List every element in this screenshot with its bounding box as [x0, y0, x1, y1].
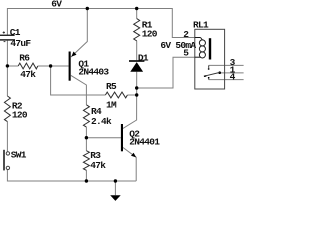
- resistor R3 47k: [83, 151, 89, 171]
- transistor Q1 emitter arrow: [71, 52, 76, 57]
- node R5 tap on base wire: [49, 64, 52, 67]
- wire SW1 to bottom rail: [7, 170, 136, 181]
- node R3 bottom rail: [85, 179, 88, 182]
- wire top 6V rail: [7, 9, 194, 38]
- svg-text:R6: R6: [19, 53, 30, 64]
- relay RL1 contact NO post pin4: [208, 77, 210, 78]
- wire relay contact pin4: [209, 79, 244, 81]
- relay RL1 core: [209, 38, 211, 59]
- svg-text:R5: R5: [106, 81, 117, 92]
- resistor R4 2.4k: [83, 105, 89, 127]
- svg-text:2.4k: 2.4k: [91, 116, 112, 127]
- capacitor C1 47uF plates: [0, 35, 15, 41]
- wire Q1 collector to R4: [71, 75, 87, 104]
- node relay pin5 branch: [135, 86, 138, 89]
- svg-text:2N4401: 2N4401: [129, 137, 160, 148]
- svg-text:1M: 1M: [106, 99, 117, 110]
- node R1 rail: [135, 7, 138, 10]
- wire R3 to ground rail: [85, 170, 87, 181]
- resistor R6 47k: [18, 63, 38, 69]
- node R4 R3 Q2 base: [85, 136, 88, 139]
- wire ground stem: [114, 181, 116, 195]
- transistor Q2 emitter arrow: [131, 153, 136, 158]
- svg-text:6V 50mA: 6V 50mA: [160, 40, 196, 51]
- capacitor C1 polarity marks: [3, 31, 6, 41]
- wire R5 feedback left: [51, 66, 106, 95]
- relay RL1 contact common dot pin1: [218, 71, 221, 74]
- switch SW1: [3, 150, 5, 171]
- svg-text:47k: 47k: [90, 160, 106, 171]
- svg-text:6V: 6V: [51, 0, 62, 10]
- wire R1 to D1: [136, 41, 138, 60]
- relay RL1 coil: [195, 38, 206, 58]
- wire D1 to Q2 collector: [123, 72, 137, 129]
- relay RL1 box: [195, 29, 225, 89]
- wire left rail cap to R2: [6, 41, 8, 96]
- transistor Q1 2N4403 bar: [69, 52, 71, 81]
- svg-text:120: 120: [12, 110, 28, 121]
- wire relay contact pin3: [209, 64, 244, 66]
- node Q1 emitter rail: [86, 7, 89, 10]
- ground: [110, 195, 121, 201]
- svg-text:47uF: 47uF: [10, 38, 31, 49]
- node ground rail: [114, 179, 117, 182]
- relay RL1 contact arm: [204, 73, 219, 77]
- svg-text:RL1: RL1: [193, 19, 209, 30]
- wire Q1 base / R6 line: [7, 65, 18, 67]
- wire Q1 emitter: [71, 9, 87, 58]
- relay RL1 contact NC post pin3: [208, 65, 210, 68]
- diode D1: [129, 60, 144, 71]
- wire R2 to SW1: [6, 122, 8, 152]
- resistor R2 120: [4, 96, 10, 122]
- svg-text:C1: C1: [10, 27, 21, 38]
- svg-text:47k: 47k: [20, 69, 36, 80]
- wire R5 right to node: [127, 94, 136, 96]
- node R6 left rail: [6, 64, 9, 67]
- wire Q2 base: [86, 137, 121, 139]
- wire R1 top: [136, 9, 138, 19]
- junction node dots: [6, 7, 139, 183]
- resistor R5 1M: [105, 92, 127, 98]
- svg-text:2N4403: 2N4403: [78, 67, 109, 78]
- transistor Q2 2N4401 bar: [121, 124, 123, 151]
- node R5 right: [135, 93, 138, 96]
- wire relay contact pin1: [220, 72, 244, 74]
- wire Q2 emitter: [123, 148, 136, 182]
- wire relay pin5 to node: [137, 57, 195, 88]
- resistor R1 120: [134, 19, 140, 41]
- svg-text:120: 120: [142, 29, 158, 40]
- svg-text:SW1: SW1: [11, 150, 27, 161]
- wire R4 to node: [85, 127, 87, 151]
- svg-text:D1: D1: [138, 52, 149, 63]
